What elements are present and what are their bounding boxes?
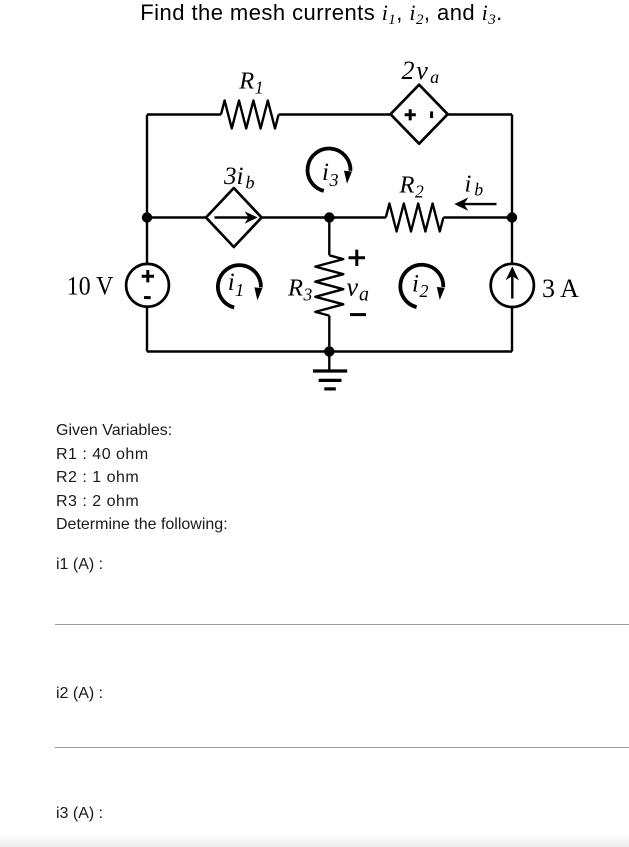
resistor R2 — [386, 204, 444, 232]
mesh current i1 — [218, 265, 262, 307]
svg-text:3ib: 3ib — [223, 163, 254, 193]
mesh current i2 — [400, 265, 444, 307]
svg-text:R3: R3 — [287, 274, 312, 304]
wire R3 to bottom — [328, 316, 330, 352]
voltage source 10V — [126, 264, 169, 307]
wire node to R3 — [328, 218, 330, 256]
current source 3A — [491, 264, 534, 307]
wire right rail mid — [511, 218, 513, 265]
node C — [507, 212, 517, 222]
wire right rail lower — [511, 307, 513, 352]
svg-text:ib: ib — [465, 170, 484, 199]
wire R2 to node — [443, 216, 512, 218]
svg-text:i1: i1 — [228, 269, 244, 300]
dependent source 2va — [391, 85, 448, 144]
svg-text:R2: R2 — [399, 172, 424, 202]
node A — [142, 212, 152, 222]
wire mid-left — [147, 216, 206, 218]
mesh current i3 — [308, 149, 352, 191]
wire node to R2 — [329, 216, 386, 218]
svg-text:R1: R1 — [238, 67, 263, 97]
wire R1 to 2va — [279, 113, 391, 115]
current arrow ib — [456, 199, 497, 210]
wire 3ib to node — [262, 216, 330, 218]
label + of va — [349, 250, 366, 266]
svg-text:va: va — [347, 273, 370, 306]
svg-text:3 A: 3 A — [542, 274, 579, 303]
resistor R3 — [315, 255, 343, 315]
resistor R1 — [221, 101, 279, 129]
svg-text:i2: i2 — [412, 270, 428, 301]
wire top-left — [147, 113, 221, 115]
wire right rail upper — [511, 115, 513, 218]
ground — [313, 352, 347, 389]
wire left rail lower — [146, 307, 148, 352]
node B — [324, 212, 334, 222]
node G — [324, 346, 334, 356]
wire left rail upper — [146, 115, 148, 218]
svg-text:i3: i3 — [322, 159, 338, 190]
label - of va — [350, 313, 366, 316]
dependent source 3ib — [206, 188, 262, 247]
svg-text:2va: 2va — [402, 56, 441, 87]
wire bottom — [147, 350, 512, 352]
wire left rail mid — [146, 218, 148, 265]
wire 2va to corner — [448, 113, 512, 115]
title — [7, 0, 629, 26]
svg-text:10 V: 10 V — [67, 271, 114, 300]
